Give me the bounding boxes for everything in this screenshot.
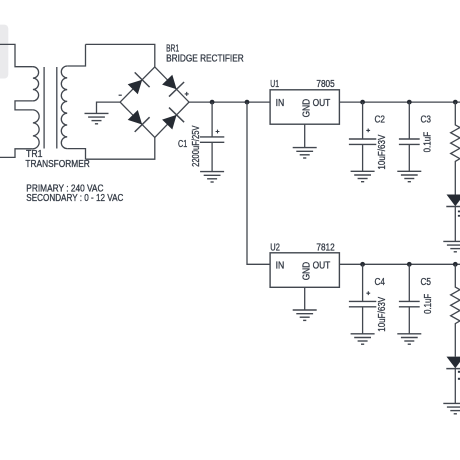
capacitor C5	[399, 264, 420, 334]
svg-text:7812: 7812	[316, 242, 335, 253]
svg-text:C2: C2	[375, 115, 386, 126]
diode top-left of BR1	[128, 80, 143, 95]
label plus at bridge positive node	[185, 92, 189, 96]
wire primary mid jog	[15, 101, 33, 110]
diode bottom-right of BR1	[162, 115, 177, 130]
diode bottom-left of BR1	[128, 110, 142, 125]
wire U1 GND pin	[304, 124, 306, 147]
junction node C5	[407, 262, 412, 267]
ground (bridge minus)	[85, 113, 109, 123]
primary winding section 1	[33, 67, 39, 101]
ground (C1)	[200, 172, 224, 182]
svg-text:GND: GND	[302, 262, 313, 281]
capacitor C1	[200, 102, 224, 172]
scrollbar remnant top-left	[0, 25, 8, 79]
secondary winding	[61, 66, 67, 149]
svg-text:IN: IN	[276, 98, 285, 109]
svg-text:2200uF/25V: 2200uF/25V	[191, 125, 202, 167]
primary winding section 2	[33, 110, 39, 149]
junction node U2 feed	[245, 100, 250, 105]
junction node C4	[360, 262, 365, 267]
wire +5V rail from U1 OUT to edge	[339, 101, 460, 103]
wire AC top: secondary to bridge	[86, 44, 155, 67]
svg-text:TRANSFORMER: TRANSFORMER	[25, 159, 89, 170]
ground (C2)	[351, 171, 375, 181]
LED D1	[446, 195, 460, 242]
wire +12V rail from U2 OUT to edge	[339, 263, 460, 265]
wire primary top lead	[0, 44, 33, 66]
label minus at bridge negative node	[119, 94, 122, 96]
voltage regulator U1 7805	[270, 90, 339, 124]
resistor R1	[451, 102, 460, 194]
svg-text:SECONDARY : 0 - 12 VAC: SECONDARY : 0 - 12 VAC	[26, 193, 123, 204]
svg-text:C3: C3	[421, 114, 432, 125]
wire bridge negative to ground	[97, 102, 121, 113]
ground (C4)	[351, 334, 375, 344]
svg-text:BRIDGE RECTIFIER: BRIDGE RECTIFIER	[166, 54, 244, 65]
svg-text:U2: U2	[270, 242, 280, 253]
transformer TR1	[0, 44, 86, 159]
wire secondary bottom lead	[67, 149, 85, 160]
junction node R2	[453, 262, 458, 267]
ground (C3)	[397, 171, 421, 181]
label plus C1 polarity	[216, 130, 220, 134]
svg-text:C4: C4	[375, 277, 386, 288]
label LED2 (cropped at edge)	[458, 371, 460, 373]
svg-text:10uF/63V: 10uF/63V	[377, 134, 388, 169]
wire unregulated DC rail to U1 IN	[189, 101, 270, 103]
ground (C5)	[397, 334, 421, 344]
svg-text:OUT: OUT	[313, 261, 331, 272]
ground (U2)	[293, 310, 317, 320]
junction node C2	[360, 100, 365, 105]
svg-text:GND: GND	[302, 99, 313, 118]
junction node R1	[453, 100, 458, 105]
label LED1 (cropped at edge)	[458, 211, 460, 213]
capacitor C3	[399, 102, 420, 171]
svg-text:IN: IN	[276, 261, 285, 272]
wire secondary top lead	[67, 44, 85, 66]
svg-text:0.1uF: 0.1uF	[423, 294, 434, 314]
svg-text:C1: C1	[178, 139, 188, 150]
LED D2	[446, 357, 460, 404]
transformer core	[43, 67, 45, 149]
voltage regulator U2 7812	[270, 253, 339, 287]
wire U2 IN feed from unregulated rail	[247, 102, 270, 264]
ground (U1)	[293, 148, 317, 158]
wire AC bottom: secondary to bridge	[86, 137, 155, 159]
svg-text:7805: 7805	[316, 79, 335, 90]
capacitor C4	[349, 264, 376, 334]
svg-text:10uF/63V: 10uF/63V	[377, 297, 388, 332]
ground (LED1)	[443, 241, 460, 251]
resistor R2	[451, 264, 460, 356]
capacitor C2	[349, 102, 376, 171]
junction node C1	[210, 100, 215, 105]
label plus C4 polarity	[366, 291, 370, 295]
svg-text:U1: U1	[270, 79, 279, 90]
wire U2 GND pin	[304, 287, 306, 310]
junction node C3	[407, 100, 412, 105]
ground (LED2)	[443, 403, 460, 413]
svg-text:0.1uF: 0.1uF	[423, 132, 434, 153]
svg-text:OUT: OUT	[313, 98, 331, 109]
label plus C2 polarity	[366, 129, 370, 133]
wire primary bottom lead	[0, 149, 33, 158]
svg-text:C5: C5	[421, 277, 432, 288]
diode top-right of BR1	[162, 75, 177, 90]
bridge rectifier BR1	[120, 67, 189, 137]
